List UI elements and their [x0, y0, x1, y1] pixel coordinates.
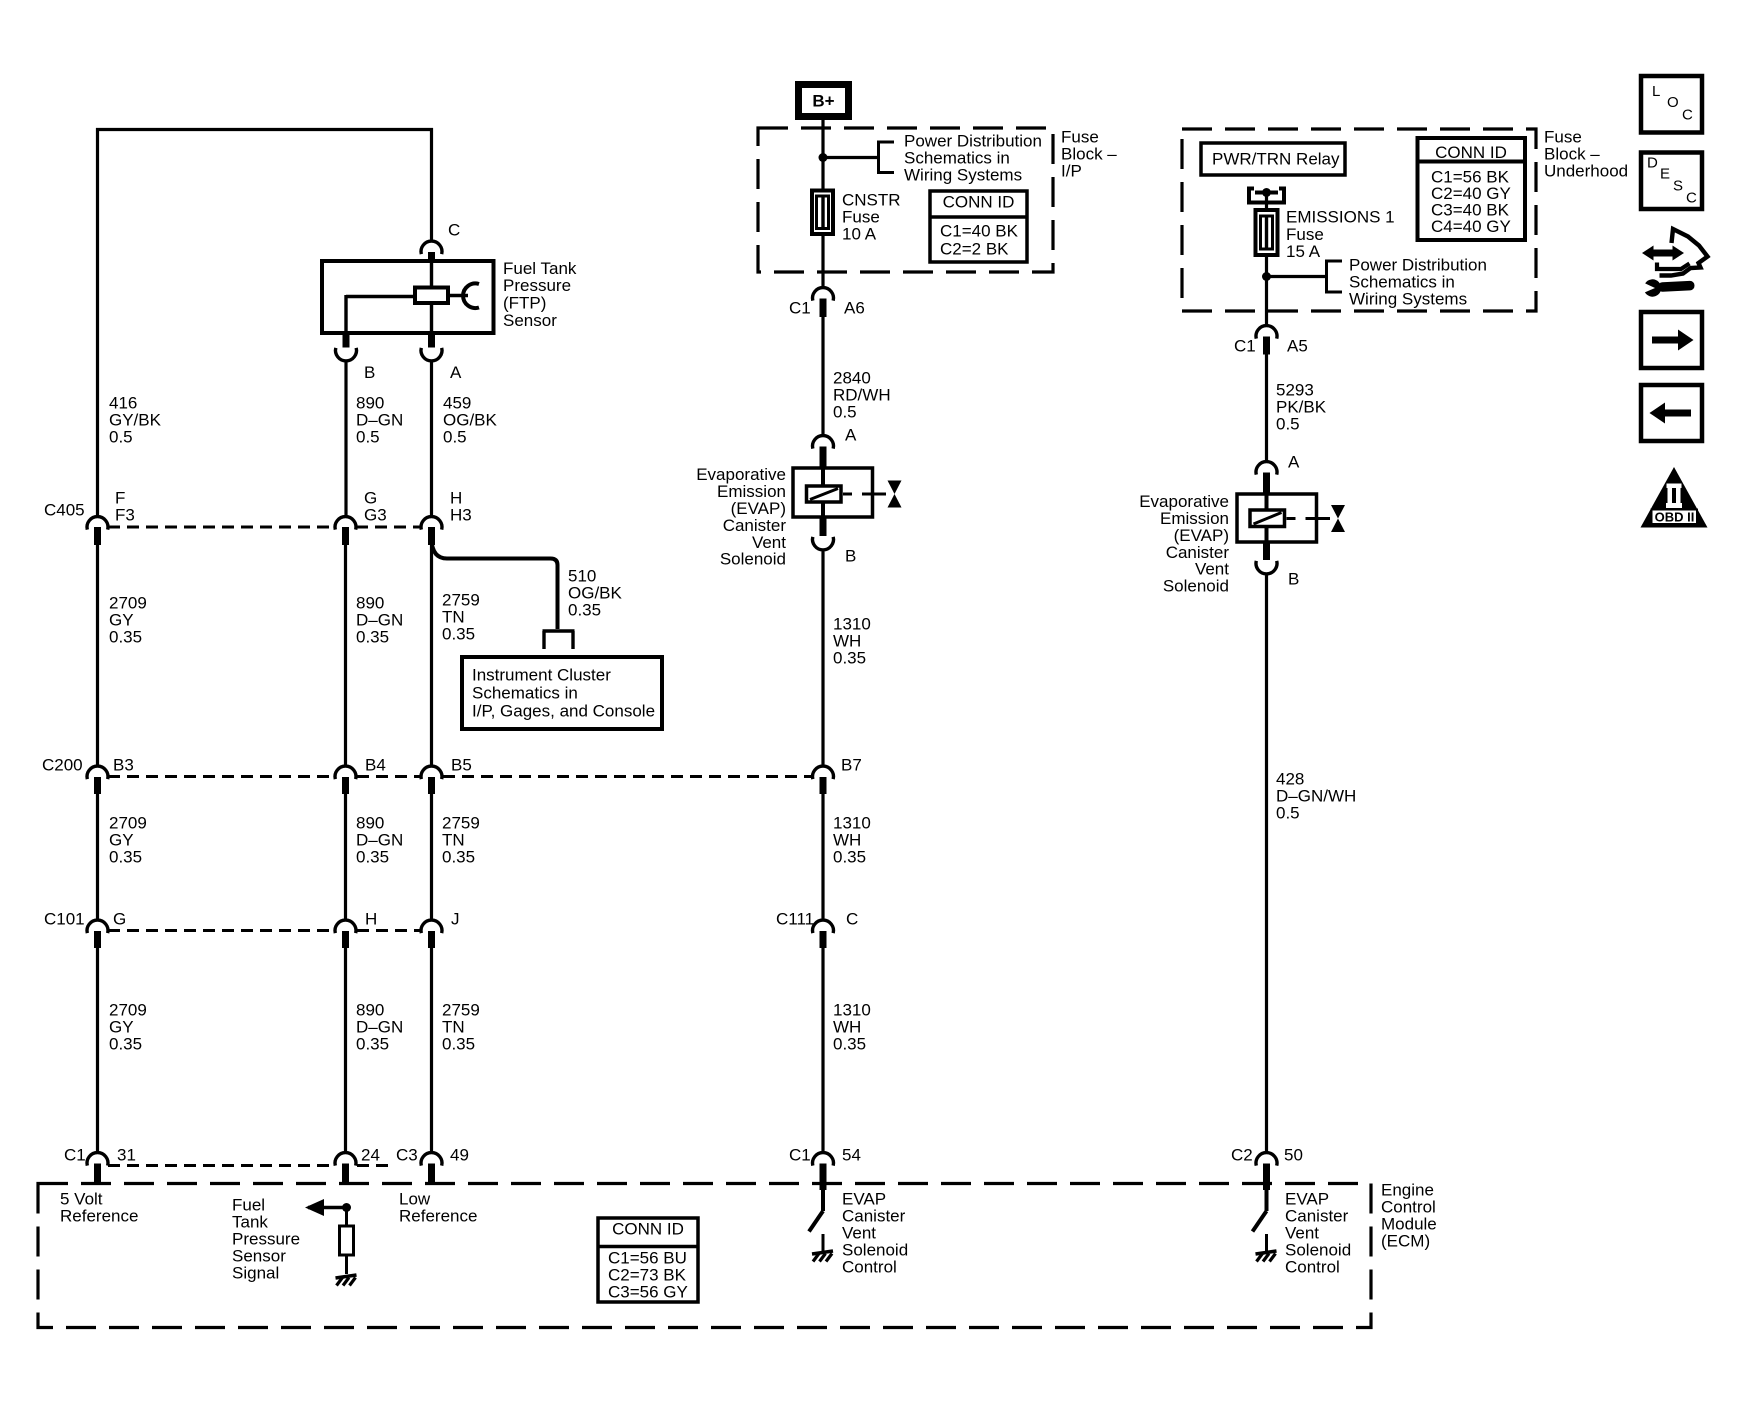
svg-text:C2: C2: [1231, 1145, 1253, 1164]
node junction fuse block: [819, 153, 828, 162]
box Instrument Cluster Schematics: [462, 657, 662, 729]
label wire 2709 GY 0.35 c: [109, 1000, 147, 1053]
fuse CNSTR 10A: [812, 191, 833, 235]
svg-text:PWR/TRN Relay: PWR/TRN Relay: [1212, 149, 1340, 168]
node bracket power distribution ref (underhood): [1327, 260, 1343, 294]
wire 890 D-GN segment 3: [344, 948, 347, 1152]
label pin F F3: [115, 488, 135, 524]
table CONN ID fuse block I/P: [930, 191, 1027, 262]
svg-text:Sensor: Sensor: [503, 311, 557, 330]
wire 428 D-GN/WH: [1265, 576, 1268, 1153]
svg-text:0.35: 0.35: [442, 847, 475, 866]
label Instrument Cluster Schematics in I/P, Gages, and Console: [472, 665, 655, 720]
label wire 428 D-GN/WH 0.5: [1276, 769, 1356, 822]
label Fuse Block - Underhood: [1544, 127, 1628, 180]
svg-text:A: A: [450, 363, 462, 382]
svg-text:CONN ID: CONN ID: [612, 1219, 684, 1238]
label wire 510 OG/BK 0.35: [568, 566, 623, 619]
connector C2 cavity 50: [1256, 1153, 1277, 1190]
svg-text:0.35: 0.35: [442, 624, 475, 643]
svg-text:C: C: [1682, 106, 1693, 123]
connector cavity B7: [813, 766, 834, 794]
svg-text:0.35: 0.35: [356, 1034, 389, 1053]
label EVAP Canister Vent Solenoid Control (right): [1285, 1189, 1351, 1276]
label wire 1310 WH 0.35 a: [833, 614, 871, 667]
svg-text:O: O: [1667, 94, 1679, 111]
icon forward arrow box: [1641, 312, 1702, 368]
label EMISSIONS 1 Fuse 15 A: [1286, 207, 1395, 261]
svg-text:0.5: 0.5: [833, 402, 857, 421]
svg-text:Solenoid: Solenoid: [720, 550, 786, 569]
svg-text:A6: A6: [844, 298, 865, 317]
svg-text:C2=2 BK: C2=2 BK: [940, 239, 1009, 258]
svg-text:Fuse: Fuse: [1286, 225, 1324, 244]
connector cavity 24: [335, 1153, 356, 1184]
svg-text:31: 31: [117, 1145, 136, 1164]
wire FTP internal pin C: [430, 261, 433, 333]
svg-text:H: H: [365, 909, 377, 928]
connector C200 cavity B3: [87, 766, 108, 794]
sensor FTP box: [322, 261, 494, 333]
svg-text:I/P, Gages, and Console: I/P, Gages, and Console: [472, 701, 655, 720]
label wire 2759 TN 0.35 b: [442, 813, 480, 866]
svg-text:B+: B+: [812, 92, 834, 111]
svg-text:C101: C101: [44, 909, 85, 928]
label C2 50: [1231, 1145, 1303, 1164]
wire to power distribution ref: [823, 156, 879, 159]
svg-text:(ECM): (ECM): [1381, 1231, 1430, 1250]
connector C111 cavity C: [813, 920, 834, 948]
label Evaporative Emission (EVAP) Canister Vent Solenoid (mid): [696, 465, 786, 569]
wire to power distribution ref (underhood): [1267, 275, 1327, 278]
svg-text:C: C: [846, 909, 858, 928]
table CONN ID ECM: [598, 1218, 698, 1302]
svg-text:(FTP): (FTP): [503, 294, 546, 313]
svg-text:Solenoid: Solenoid: [1163, 577, 1229, 596]
svg-text:0.35: 0.35: [109, 1034, 142, 1053]
connector C1 cavity A5: [1256, 326, 1277, 355]
switch EVAP canister vent solenoid control driver (right): [1253, 1190, 1267, 1232]
svg-text:Instrument Cluster: Instrument Cluster: [472, 665, 611, 684]
node internal signal arrow: [305, 1199, 351, 1216]
power feed B+: [795, 81, 852, 120]
wire 5293 PK/BK: [1265, 355, 1268, 462]
connector cavity B5: [421, 766, 442, 794]
svg-text:C1: C1: [64, 1145, 86, 1164]
svg-text:C1=40 BK: C1=40 BK: [940, 221, 1019, 240]
svg-text:J: J: [451, 909, 460, 928]
wire dashed connector C200 row: [108, 775, 812, 778]
wire 2759 TN segment 1: [430, 545, 433, 765]
svg-text:Wiring Systems: Wiring Systems: [1349, 289, 1467, 308]
svg-text:0.5: 0.5: [443, 427, 467, 446]
wire 2709 GY segment 1: [96, 545, 99, 765]
connector pin B cavity: [336, 333, 357, 361]
svg-text:49: 49: [450, 1145, 469, 1164]
wire 1310 WH segment 3: [821, 948, 824, 1152]
valve symbol solenoid (right): [1331, 505, 1345, 532]
svg-text:0.5: 0.5: [109, 427, 133, 446]
svg-text:Control: Control: [842, 1257, 897, 1276]
svg-text:A5: A5: [1287, 336, 1308, 355]
wire 890 D-GN segment 2: [344, 794, 347, 919]
connector cavity G3: [335, 517, 356, 545]
connector C1 cavity 31: [87, 1153, 108, 1184]
label Power Distribution Schematics in Wiring Systems (underhood): [1349, 255, 1487, 308]
wire top horizontal 416 GY/BK: [96, 128, 433, 131]
svg-text:CONN ID: CONN ID: [1435, 143, 1507, 162]
svg-text:C: C: [1686, 189, 1697, 206]
label wire 890 D-GN 0.35 a: [356, 593, 403, 646]
svg-text:C: C: [448, 220, 460, 239]
connector C405 cavity F: [87, 517, 108, 545]
svg-text:50: 50: [1284, 1145, 1303, 1164]
solenoid EVAP canister vent (right): [1237, 494, 1330, 542]
icon jump arrows and wrench: [1638, 229, 1708, 297]
svg-text:0.5: 0.5: [356, 427, 380, 446]
label Power Distribution Schematics in Wiring Systems (I/P): [904, 131, 1042, 184]
ground ECM driver (right): [1256, 1234, 1277, 1262]
svg-text:C1: C1: [789, 1145, 811, 1164]
svg-text:Underhood: Underhood: [1544, 161, 1628, 180]
svg-text:C4=40 GY: C4=40 GY: [1431, 217, 1511, 236]
svg-text:S: S: [1673, 177, 1683, 194]
icon back arrow box: [1641, 385, 1702, 441]
wire 1310 WH segment 1: [821, 552, 824, 766]
label pin G G3: [364, 488, 387, 524]
label C1 A6: [789, 298, 865, 317]
wire 1310 WH segment 2: [821, 794, 824, 919]
svg-text:Reference: Reference: [60, 1206, 138, 1225]
box Fuse Block I/P dashed: [758, 128, 1053, 272]
connector cavity J: [421, 920, 442, 948]
label C1 A5: [1234, 336, 1308, 355]
svg-text:0.35: 0.35: [356, 627, 389, 646]
node fork to instrument cluster: [543, 631, 575, 649]
svg-text:OBD II: OBD II: [1655, 510, 1695, 525]
svg-text:10 A: 10 A: [842, 224, 877, 243]
wire 2840 feed vertical: [821, 120, 824, 287]
icon DESC box: [1641, 153, 1702, 210]
connector C1 cavity A6: [813, 288, 834, 317]
svg-text:A: A: [845, 425, 857, 444]
module ECM dashed box: [38, 1184, 1371, 1328]
connector pin A cavity: [421, 333, 442, 361]
svg-text:B: B: [364, 363, 375, 382]
ground ECM driver (mid): [812, 1234, 833, 1262]
connector pin C cavity: [421, 241, 442, 262]
svg-text:I/P: I/P: [1061, 161, 1082, 180]
wire dashed connector C405 row: [108, 525, 421, 528]
valve symbol solenoid (engine): [888, 481, 902, 508]
svg-text:0.5: 0.5: [1276, 803, 1300, 822]
table CONN ID fuse block underhood: [1418, 138, 1526, 240]
connector cavity H lower: [335, 920, 356, 948]
wire 510 OG/BK branch: [432, 540, 558, 629]
connector solenoid pin A cavity (right): [1256, 462, 1277, 494]
label Fuel Tank Pressure (FTP) Sensor: [503, 259, 577, 330]
icon OBD II triangle: [1641, 467, 1708, 528]
svg-text:54: 54: [842, 1145, 861, 1164]
svg-text:C200: C200: [42, 755, 83, 774]
svg-text:C1: C1: [789, 298, 811, 317]
label EVAP Canister Vent Solenoid Control (mid): [842, 1189, 908, 1276]
svg-text:0.35: 0.35: [356, 847, 389, 866]
relay PWR/TRN box: [1201, 143, 1345, 175]
svg-text:C3=56 GY: C3=56 GY: [608, 1282, 688, 1301]
connector C1 cavity 54: [813, 1153, 834, 1190]
fuse EMISSIONS 1 15A: [1256, 210, 1278, 255]
relay contact feed symbol: [1249, 188, 1284, 203]
label wire 890 D-GN 0.35 c: [356, 1000, 403, 1053]
label Evaporative Emission (EVAP) Canister Vent Solenoid (right): [1139, 492, 1229, 595]
label wire 416 GY/BK 0.5: [109, 393, 162, 446]
label Fuse Block - I/P: [1061, 127, 1117, 180]
wire 890 D-GN segment 1: [344, 362, 347, 517]
svg-text:0.35: 0.35: [833, 648, 866, 667]
svg-text:C405: C405: [44, 500, 85, 519]
svg-text:G3: G3: [364, 505, 387, 524]
svg-text:G: G: [113, 909, 126, 928]
svg-text:B3: B3: [113, 755, 134, 774]
svg-text:H3: H3: [450, 505, 472, 524]
svg-text:C111: C111: [776, 909, 814, 928]
connector solenoid pin B cavity: [813, 517, 834, 550]
svg-text:CONN ID: CONN ID: [943, 192, 1015, 211]
label CNSTR Fuse 10 A: [842, 190, 901, 243]
ground ECM internal: [336, 1255, 357, 1286]
svg-text:C3: C3: [396, 1145, 418, 1164]
wire 459 OG/BK segment: [430, 362, 433, 517]
connector cavity B4: [335, 766, 356, 794]
svg-text:B: B: [845, 546, 856, 565]
solenoid EVAP canister vent (engine): [793, 468, 886, 517]
svg-text:0.35: 0.35: [833, 1034, 866, 1053]
svg-text:Reference: Reference: [399, 1206, 477, 1225]
label wire 2759 TN 0.35 c: [442, 1000, 480, 1053]
svg-text:C1: C1: [1234, 336, 1256, 355]
connector cavity 49: [421, 1153, 442, 1185]
label wire 2709 GY 0.35 a: [109, 593, 147, 646]
switch EVAP canister vent solenoid control driver: [809, 1190, 823, 1232]
wire 2709 GY segment 2: [96, 794, 99, 919]
svg-text:A: A: [1288, 452, 1300, 471]
label Fuel Tank Pressure Sensor Signal: [232, 1195, 300, 1282]
label wire 890 D-GN 0.35 b: [356, 813, 403, 866]
box Fuse Block Underhood dashed: [1182, 129, 1536, 311]
svg-text:L: L: [1652, 83, 1660, 100]
label wire 459 OG/BK 0.5: [443, 393, 498, 446]
wire 5293 feed vertical: [1265, 193, 1268, 326]
svg-text:Pressure: Pressure: [503, 276, 571, 295]
label wire 2759 TN 0.35 a: [442, 590, 480, 643]
svg-text:Schematics in: Schematics in: [472, 683, 578, 702]
label pin H H3: [450, 488, 472, 524]
svg-text:EMISSIONS 1: EMISSIONS 1: [1286, 207, 1395, 226]
svg-text:0.35: 0.35: [568, 600, 601, 619]
connector C101 cavity G: [87, 920, 108, 948]
sensor FTP wiper arc: [463, 283, 479, 308]
wire 2759 TN segment 2: [430, 794, 433, 919]
icon LOC box: [1641, 76, 1702, 133]
svg-text:F3: F3: [115, 505, 135, 524]
wire dashed connector ECM row: [108, 1164, 392, 1167]
svg-text:0.35: 0.35: [442, 1034, 475, 1053]
svg-text:Fuel Tank: Fuel Tank: [503, 259, 577, 278]
svg-text:Signal: Signal: [232, 1263, 279, 1282]
node junction fuse block underhood: [1262, 272, 1271, 281]
label wire 890 D-GN 0.5: [356, 393, 403, 446]
label C1 54: [789, 1145, 861, 1164]
wire 2709 GY segment 3: [96, 948, 99, 1152]
svg-text:B5: B5: [451, 755, 472, 774]
connector cavity H3: [421, 517, 442, 545]
wire FTP internal left: [346, 295, 415, 333]
wire 2840 RD/WH: [821, 317, 824, 435]
wire 416 GY/BK vertical: [96, 128, 99, 516]
wire FTP internal right: [448, 294, 468, 297]
svg-text:Wiring Systems: Wiring Systems: [904, 165, 1022, 184]
label Low Reference: [399, 1189, 477, 1225]
resistor FTP element: [415, 288, 448, 304]
label wire 5293 PK/BK 0.5: [1276, 380, 1327, 433]
svg-text:0.35: 0.35: [833, 847, 866, 866]
svg-text:B: B: [1288, 569, 1299, 588]
wire 2759 TN segment 3: [430, 948, 433, 1152]
svg-text:0.35: 0.35: [109, 627, 142, 646]
resistor ECM internal: [340, 1208, 354, 1256]
node bracket power distribution ref: [879, 141, 895, 175]
label wire 1310 WH 0.35 c: [833, 1000, 871, 1053]
svg-text:0.35: 0.35: [109, 847, 142, 866]
svg-text:Control: Control: [1285, 1257, 1340, 1276]
svg-text:D: D: [1647, 154, 1658, 171]
connector solenoid pin A cavity: [813, 436, 834, 468]
label wire 2840 RD/WH 0.5: [833, 368, 891, 421]
label 5 Volt Reference: [60, 1189, 138, 1225]
svg-text:B7: B7: [841, 755, 862, 774]
label wire 1310 WH 0.35 b: [833, 813, 871, 866]
svg-text:E: E: [1660, 165, 1670, 182]
connector solenoid pin B cavity (right): [1256, 542, 1277, 574]
svg-text:24: 24: [361, 1145, 380, 1164]
svg-text:B4: B4: [365, 755, 386, 774]
label Engine Control Module (ECM): [1381, 1180, 1437, 1250]
label wire 2709 GY 0.35 b: [109, 813, 147, 866]
svg-text:15 A: 15 A: [1286, 242, 1321, 261]
wire dashed connector C101 row: [108, 929, 420, 932]
svg-text:0.5: 0.5: [1276, 414, 1300, 433]
wire 459 OG/BK pin C vertical: [430, 128, 433, 240]
